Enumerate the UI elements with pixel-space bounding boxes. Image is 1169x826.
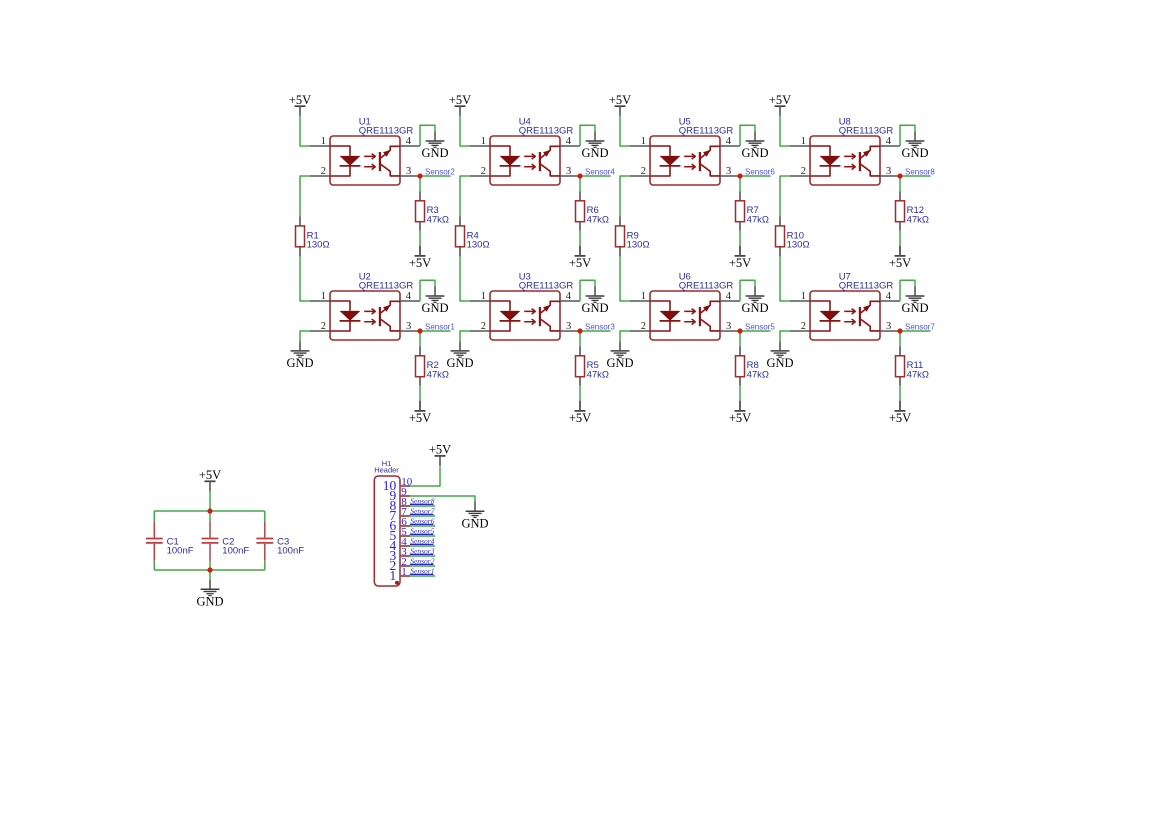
junction at U2 pin 3 xyxy=(417,328,422,333)
ground GND (at U2 pin 4) xyxy=(421,286,448,315)
svg-text:Sensor7: Sensor7 xyxy=(905,322,935,331)
svg-text:GND: GND xyxy=(461,516,488,530)
wire xyxy=(419,192,421,201)
wire R7 to +5V xyxy=(739,222,741,231)
svg-text:GND: GND xyxy=(421,301,448,315)
net label Sensor2 (global) xyxy=(410,556,435,565)
svg-text:+5V: +5V xyxy=(199,468,221,482)
pin 1 marker dot xyxy=(395,581,399,585)
svg-text:+5V: +5V xyxy=(609,93,631,107)
optocoupler U7 QRE1113GR xyxy=(790,291,900,340)
capacitor C1 100nF xyxy=(146,511,163,570)
svg-text:QRE1113GR: QRE1113GR xyxy=(359,281,414,292)
power +5V (below R3) xyxy=(409,246,431,270)
wire U4 pin 3 stub to net Sensor4 xyxy=(580,175,611,177)
svg-text:GND: GND xyxy=(766,356,793,370)
svg-text:GND: GND xyxy=(286,356,313,370)
net label Sensor8 (global) xyxy=(410,496,435,505)
wire +5V to U5 pin 1 xyxy=(620,116,630,146)
svg-text:3: 3 xyxy=(566,321,571,332)
wire R3 to +5V xyxy=(419,222,421,231)
svg-text:130Ω: 130Ω xyxy=(307,240,330,251)
wire U2 pin 4 to GND xyxy=(420,280,435,301)
svg-text:130Ω: 130Ω xyxy=(627,240,650,251)
svg-text:3: 3 xyxy=(886,321,891,332)
svg-text:1: 1 xyxy=(401,566,407,578)
svg-text:3: 3 xyxy=(406,321,411,332)
ground GND (at U5 pin 4) xyxy=(741,131,768,160)
svg-text:4: 4 xyxy=(726,136,732,147)
wire R1 to U2 pin 1 xyxy=(299,247,301,257)
wire U4 pin 2 to R4 xyxy=(460,176,470,216)
svg-text:1: 1 xyxy=(641,136,646,147)
wire U2 pin 2 to GND xyxy=(300,331,310,341)
svg-text:3: 3 xyxy=(726,166,731,177)
optocoupler U3 QRE1113GR xyxy=(470,291,580,340)
svg-text:3: 3 xyxy=(726,321,731,332)
svg-text:GND: GND xyxy=(901,146,928,160)
svg-text:3: 3 xyxy=(886,166,891,177)
wire U3 pin 3 stub to net Sensor3 xyxy=(580,330,611,332)
svg-text:2: 2 xyxy=(321,166,326,177)
svg-text:130Ω: 130Ω xyxy=(467,240,490,251)
svg-text:QRE1113GR: QRE1113GR xyxy=(679,126,734,137)
power +5V (top of column 2) xyxy=(449,93,471,116)
junction at U6 pin 3 xyxy=(737,328,742,333)
wire U8 pin 4 to GND xyxy=(900,125,915,146)
svg-text:+5V: +5V xyxy=(729,256,751,270)
svg-text:GND: GND xyxy=(421,146,448,160)
svg-text:2: 2 xyxy=(801,166,806,177)
wire H1 pin 8 net Sensor8 xyxy=(410,505,435,507)
svg-text:47kΩ: 47kΩ xyxy=(907,370,929,381)
wire R11 to +5V xyxy=(899,377,901,386)
ground GND (bottom of column 1) xyxy=(286,341,313,370)
ground GND (at U8 pin 4) xyxy=(901,131,928,160)
svg-text:1: 1 xyxy=(321,291,326,302)
wire xyxy=(299,216,301,226)
wire R9 to U6 pin 1 xyxy=(619,247,621,257)
svg-text:QRE1113GR: QRE1113GR xyxy=(519,281,574,292)
junction at U7 pin 3 xyxy=(897,328,902,333)
pin 1 of H1 xyxy=(390,566,410,583)
svg-text:2: 2 xyxy=(641,321,646,332)
wire +5V to U4 pin 1 xyxy=(460,116,470,146)
svg-text:1: 1 xyxy=(641,291,646,302)
wire xyxy=(579,347,581,356)
wire U8 pin 2 to R10 xyxy=(780,176,790,216)
svg-text:GND: GND xyxy=(581,146,608,160)
wire bottom bus xyxy=(154,569,264,571)
wire U2 pin 3 to R2 xyxy=(419,331,421,347)
svg-text:47kΩ: 47kΩ xyxy=(587,215,609,226)
net label Sensor1 (global) xyxy=(410,566,435,575)
pin 5 of H1 xyxy=(390,526,410,543)
wire R10 to U7 pin 1 xyxy=(779,247,781,257)
ground GND (bottom of column 4) xyxy=(766,341,793,370)
wire U5 pin 3 to R7 xyxy=(739,176,741,192)
resistor R11 xyxy=(896,356,905,377)
power +5V (below R12) xyxy=(889,246,911,270)
svg-text:Header: Header xyxy=(374,466,399,475)
wire U7 pin 4 to GND xyxy=(900,280,915,301)
svg-text:+5V: +5V xyxy=(729,411,751,425)
svg-text:+5V: +5V xyxy=(409,411,431,425)
svg-text:Sensor2: Sensor2 xyxy=(425,167,455,176)
resistor R12 xyxy=(896,201,905,222)
wire R6 to +5V xyxy=(579,222,581,231)
pin 6 of H1 xyxy=(390,516,410,533)
wire xyxy=(459,216,461,226)
svg-text:4: 4 xyxy=(406,136,412,147)
resistor R1 130&#937; xyxy=(296,226,305,247)
wire H1 pin 2 net Sensor2 xyxy=(410,565,435,567)
wire U3 pin 2 to GND xyxy=(460,331,470,341)
net label Sensor7 (global) xyxy=(410,506,435,515)
wire U6 pin 3 stub to net Sensor5 xyxy=(740,330,771,332)
power +5V (below R5) xyxy=(569,401,591,425)
optocoupler U5 QRE1113GR xyxy=(630,136,740,185)
power +5V (top of column 3) xyxy=(609,93,631,116)
resistor R4 130&#937; xyxy=(456,226,465,247)
svg-text:100nF: 100nF xyxy=(277,546,304,557)
svg-text:2: 2 xyxy=(641,166,646,177)
svg-text:4: 4 xyxy=(886,136,892,147)
svg-text:QRE1113GR: QRE1113GR xyxy=(839,281,894,292)
pin 9 of H1 xyxy=(390,486,410,503)
svg-text:GND: GND xyxy=(581,301,608,315)
svg-text:Sensor4: Sensor4 xyxy=(585,167,615,176)
svg-text:4: 4 xyxy=(406,291,412,302)
wire R4 to U3 pin 1 xyxy=(459,247,461,257)
svg-text:Sensor6: Sensor6 xyxy=(745,167,775,176)
svg-text:47kΩ: 47kΩ xyxy=(907,215,929,226)
wire H1 pin 10 to +5V xyxy=(410,466,440,486)
svg-text:QRE1113GR: QRE1113GR xyxy=(359,126,414,137)
wire bottom bus to GND xyxy=(209,570,211,580)
wire U1 pin 2 to R1 xyxy=(300,176,310,216)
svg-text:QRE1113GR: QRE1113GR xyxy=(519,126,574,137)
power +5V (top of column 1) xyxy=(289,93,311,116)
junction top bus at C2 xyxy=(207,508,212,513)
svg-text:+5V: +5V xyxy=(569,256,591,270)
svg-text:GND: GND xyxy=(606,356,633,370)
ground GND (at U7 pin 4) xyxy=(901,286,928,315)
wire H1 pin 6 net Sensor6 xyxy=(410,525,435,527)
capacitor C3 100nF xyxy=(256,511,273,570)
svg-text:100nF: 100nF xyxy=(222,546,249,557)
wire xyxy=(419,347,421,356)
wire U5 pin 2 to R9 xyxy=(620,176,630,216)
wire H1 pin 5 net Sensor5 xyxy=(410,535,435,537)
svg-text:1: 1 xyxy=(321,136,326,147)
wire R12 to +5V xyxy=(899,222,901,231)
power +5V (above C2) xyxy=(199,468,221,491)
power +5V (below R6) xyxy=(569,246,591,270)
svg-text:1: 1 xyxy=(390,568,397,583)
wire U6 pin 2 to GND xyxy=(620,331,630,341)
ground GND (below C2) xyxy=(196,580,223,609)
wire U6 pin 3 to R8 xyxy=(739,331,741,347)
wire U3 pin 4 to GND xyxy=(580,280,595,301)
wire xyxy=(739,192,741,201)
wire R2 to +5V xyxy=(419,377,421,386)
power +5V (top of column 4) xyxy=(769,93,791,116)
svg-text:+5V: +5V xyxy=(429,443,451,457)
svg-text:4: 4 xyxy=(726,291,732,302)
svg-text:+5V: +5V xyxy=(289,93,311,107)
svg-text:2: 2 xyxy=(481,321,486,332)
svg-text:Sensor5: Sensor5 xyxy=(745,322,775,331)
resistor R10 130&#937; xyxy=(776,226,785,247)
pin 4 of H1 xyxy=(390,536,410,553)
svg-text:47kΩ: 47kΩ xyxy=(427,215,449,226)
junction at U8 pin 3 xyxy=(897,173,902,178)
svg-text:QRE1113GR: QRE1113GR xyxy=(839,126,894,137)
pin 3 of H1 xyxy=(390,546,410,563)
power +5V (below R7) xyxy=(729,246,751,270)
wire xyxy=(579,192,581,201)
optocoupler U6 QRE1113GR xyxy=(630,291,740,340)
pin 8 of H1 xyxy=(390,496,410,513)
power +5V (at H1 pin 10) xyxy=(429,443,451,466)
wire U7 pin 3 to R11 xyxy=(899,331,901,347)
wire U5 pin 3 stub to net Sensor6 xyxy=(740,175,771,177)
wire U5 pin 4 to GND xyxy=(740,125,755,146)
wire +5V to top bus xyxy=(209,491,211,511)
wire xyxy=(779,216,781,226)
optocoupler U4 QRE1113GR xyxy=(470,136,580,185)
wire H1 pin 3 net Sensor3 xyxy=(410,555,435,557)
svg-text:4: 4 xyxy=(566,291,572,302)
net label Sensor4 (global) xyxy=(410,536,435,545)
svg-text:GND: GND xyxy=(196,594,223,608)
svg-text:GND: GND xyxy=(741,146,768,160)
wire U1 pin 3 stub to net Sensor2 xyxy=(420,175,451,177)
ground GND (bottom of column 2) xyxy=(446,341,473,370)
wire xyxy=(739,347,741,356)
wire xyxy=(899,192,901,201)
resistor R5 xyxy=(576,356,585,377)
wire xyxy=(899,347,901,356)
svg-text:3: 3 xyxy=(406,166,411,177)
svg-text:GND: GND xyxy=(901,301,928,315)
svg-text:130Ω: 130Ω xyxy=(787,240,810,251)
resistor R3 xyxy=(416,201,425,222)
wire U4 pin 4 to GND xyxy=(580,125,595,146)
svg-text:4: 4 xyxy=(886,291,892,302)
ground GND (at U4 pin 4) xyxy=(581,131,608,160)
svg-text:Sensor8: Sensor8 xyxy=(905,167,935,176)
ground GND (at U1 pin 4) xyxy=(421,131,448,160)
svg-text:1: 1 xyxy=(801,136,806,147)
junction at U3 pin 3 xyxy=(577,328,582,333)
svg-text:QRE1113GR: QRE1113GR xyxy=(679,281,734,292)
svg-text:+5V: +5V xyxy=(409,256,431,270)
net label Sensor5 (global) xyxy=(410,526,435,535)
power +5V (below R11) xyxy=(889,401,911,425)
svg-text:2: 2 xyxy=(321,321,326,332)
svg-text:+5V: +5V xyxy=(769,93,791,107)
svg-text:+5V: +5V xyxy=(569,411,591,425)
wire U1 pin 4 to GND xyxy=(420,125,435,146)
net label Sensor6 (global) xyxy=(410,516,435,525)
svg-text:2: 2 xyxy=(801,321,806,332)
svg-text:2: 2 xyxy=(481,166,486,177)
svg-text:Sensor3: Sensor3 xyxy=(585,322,615,331)
pin 7 of H1 xyxy=(390,506,410,523)
resistor R2 xyxy=(416,356,425,377)
svg-text:1: 1 xyxy=(481,136,486,147)
wire U2 pin 3 stub to net Sensor1 xyxy=(420,330,451,332)
wire R8 to +5V xyxy=(739,377,741,386)
wire U7 pin 2 to GND xyxy=(780,331,790,341)
optocoupler U1 QRE1113GR xyxy=(310,136,420,185)
svg-text:+5V: +5V xyxy=(889,411,911,425)
ground GND (bottom of column 3) xyxy=(606,341,633,370)
wire U1 pin 3 to R3 xyxy=(419,176,421,192)
svg-text:47kΩ: 47kΩ xyxy=(747,215,769,226)
ground GND (at U3 pin 4) xyxy=(581,286,608,315)
svg-text:47kΩ: 47kΩ xyxy=(427,370,449,381)
wire U4 pin 3 to R6 xyxy=(579,176,581,192)
svg-text:+5V: +5V xyxy=(449,93,471,107)
svg-text:1: 1 xyxy=(801,291,806,302)
wire xyxy=(619,216,621,226)
wire +5V to U1 pin 1 xyxy=(300,116,310,146)
svg-text:Sensor1: Sensor1 xyxy=(425,322,455,331)
svg-text:+5V: +5V xyxy=(889,256,911,270)
wire +5V to U8 pin 1 xyxy=(780,116,790,146)
wire U8 pin 3 stub to net Sensor8 xyxy=(900,175,931,177)
svg-text:4: 4 xyxy=(566,136,572,147)
svg-text:47kΩ: 47kΩ xyxy=(747,370,769,381)
svg-text:GND: GND xyxy=(741,301,768,315)
optocoupler U2 QRE1113GR xyxy=(310,291,420,340)
wire H1 pin 7 net Sensor7 xyxy=(410,515,435,517)
ground GND (at H1 pin 9) xyxy=(461,501,488,530)
junction at U4 pin 3 xyxy=(577,173,582,178)
wire U3 pin 3 to R5 xyxy=(579,331,581,347)
svg-text:GND: GND xyxy=(446,356,473,370)
optocoupler U8 QRE1113GR xyxy=(790,136,900,185)
wire R5 to +5V xyxy=(579,377,581,386)
junction at U5 pin 3 xyxy=(737,173,742,178)
resistor R9 130&#937; xyxy=(616,226,625,247)
wire U8 pin 3 to R12 xyxy=(899,176,901,192)
connector H1 body xyxy=(374,476,400,586)
wire U6 pin 4 to GND xyxy=(740,280,755,301)
pin 2 of H1 xyxy=(390,556,410,573)
junction bottom bus at C2 xyxy=(207,567,212,572)
pin 10 of H1 xyxy=(383,476,413,493)
wire top bus xyxy=(154,510,264,512)
junction at U1 pin 3 xyxy=(417,173,422,178)
capacitor C2 100nF xyxy=(202,511,219,570)
svg-text:3: 3 xyxy=(566,166,571,177)
resistor R6 xyxy=(576,201,585,222)
svg-text:100nF: 100nF xyxy=(167,546,194,557)
wire H1 pin 4 net Sensor4 xyxy=(410,545,435,547)
svg-text:47kΩ: 47kΩ xyxy=(587,370,609,381)
power +5V (below R2) xyxy=(409,401,431,425)
svg-text:1: 1 xyxy=(481,291,486,302)
wire H1 pin 1 net Sensor1 xyxy=(410,575,435,577)
power +5V (below R8) xyxy=(729,401,751,425)
ground GND (at U6 pin 4) xyxy=(741,286,768,315)
resistor R7 xyxy=(736,201,745,222)
wire U7 pin 3 stub to net Sensor7 xyxy=(900,330,931,332)
wire H1 pin 9 to GND xyxy=(410,496,475,501)
net label Sensor3 (global) xyxy=(410,546,435,555)
resistor R8 xyxy=(736,356,745,377)
